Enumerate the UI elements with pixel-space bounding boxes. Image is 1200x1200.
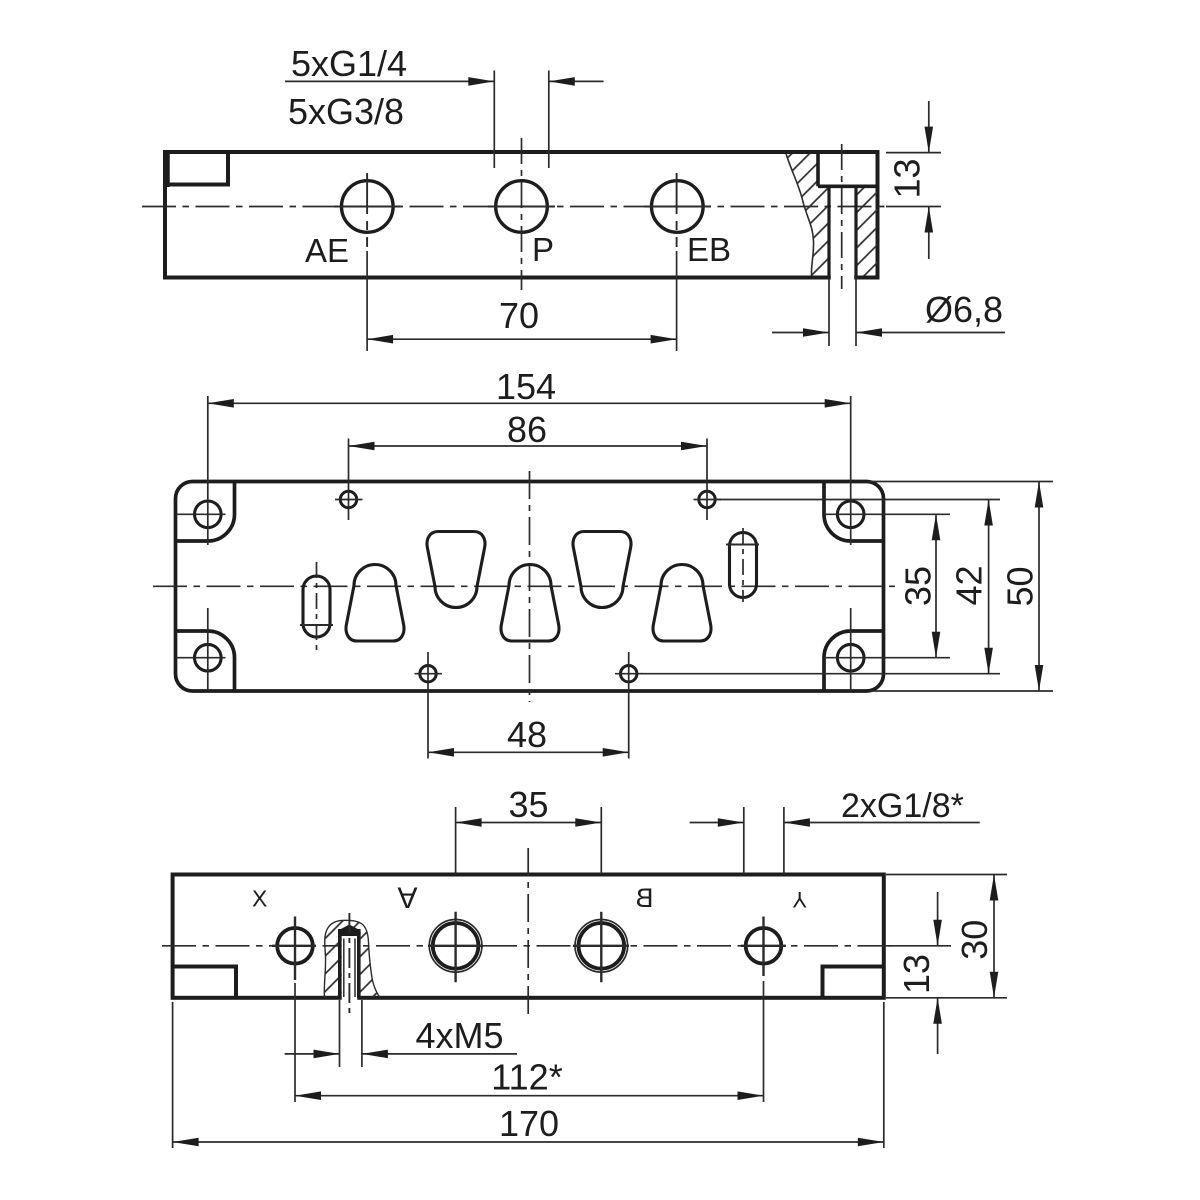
svg-text:EB: EB bbox=[687, 231, 731, 268]
dim 86 line bbox=[349, 445, 708, 447]
hatching right of mounting hole section bbox=[856, 186, 878, 275]
dim 154 line bbox=[208, 402, 851, 404]
dim 35 (view3) extension lines bbox=[455, 807, 457, 874]
svg-text:5xG3/8: 5xG3/8 bbox=[288, 91, 404, 132]
dim 50 line bbox=[1038, 482, 1040, 692]
dim 86 extension lines bbox=[348, 439, 350, 521]
view2 vertical centerline bbox=[529, 471, 531, 702]
mounting hole opening at plate bottom edge bbox=[831, 275, 854, 280]
mounting hole Ø6,8 left wall bbox=[827, 186, 830, 277]
dim 112* extension lines bbox=[294, 983, 296, 1102]
dim 13 line and arrows (view1) bbox=[928, 101, 930, 153]
svg-text:112*: 112* bbox=[491, 1057, 562, 1098]
M5 section hatch blob bbox=[324, 920, 380, 997]
dim 4xM5 extension lines bbox=[339, 1000, 341, 1067]
port AE vertical crosshair + extension to dim 70 bbox=[366, 173, 368, 247]
small hole bottom-right bbox=[621, 666, 637, 682]
svg-text:Y: Y bbox=[792, 887, 807, 912]
dim 2xG1/8 extension lines bbox=[743, 807, 745, 874]
dim 70 line bbox=[367, 338, 676, 340]
dim 13 (view3) extension line at centerline bbox=[888, 945, 951, 947]
valve port cutout down #2 bbox=[573, 532, 631, 608]
M5 hole centerline bbox=[348, 913, 350, 1018]
valve port cutout up #2 bbox=[501, 565, 559, 642]
svg-text:5xG1/4: 5xG1/4 bbox=[291, 43, 407, 84]
port A hole (tapped) bbox=[429, 920, 482, 973]
dim 112* line bbox=[295, 1095, 764, 1097]
dim 35 line bbox=[935, 514, 937, 657]
corner pocket top-right bbox=[824, 482, 884, 542]
corner pocket bottom-left bbox=[176, 631, 235, 691]
svg-text:35: 35 bbox=[508, 784, 548, 825]
corner screw hole bottom-left bbox=[195, 644, 222, 671]
dim 13 (view3) line and arrows bbox=[937, 892, 939, 946]
hatching left of mounting hole section bbox=[786, 154, 829, 276]
small hole top-right bbox=[699, 491, 715, 507]
view1 plate outline bbox=[165, 152, 878, 278]
corner pocket top-left bbox=[176, 482, 235, 542]
corner screw hole top-left bbox=[195, 501, 222, 528]
svg-text:13: 13 bbox=[887, 158, 928, 198]
corner pocket bottom-right bbox=[824, 631, 884, 691]
dim 170 line bbox=[173, 1141, 884, 1143]
port EB hole bbox=[652, 181, 704, 233]
counterbore outline bbox=[818, 153, 878, 187]
svg-text:86: 86 bbox=[507, 409, 547, 450]
svg-text:30: 30 bbox=[954, 920, 995, 960]
dim G1/4 extension lines at P hole edges bbox=[493, 71, 495, 169]
view1 left cut edge (thick) bbox=[163, 151, 170, 188]
svg-text:50: 50 bbox=[1000, 566, 1041, 606]
svg-text:42: 42 bbox=[949, 565, 990, 605]
dim G1/4 right arrow bbox=[549, 80, 604, 82]
view1 top-left notch bbox=[165, 152, 228, 185]
dim 48 line bbox=[428, 751, 629, 753]
mounting hole centerline bbox=[841, 144, 843, 289]
view3 bottom-right notch bbox=[823, 967, 884, 998]
dim 42 line bbox=[988, 500, 990, 674]
dim 30 extension lines bbox=[886, 874, 1007, 876]
oblong slot left bbox=[303, 576, 330, 637]
port B hole (tapped) bbox=[575, 920, 628, 973]
view2 plate outline (rounded) bbox=[176, 482, 884, 692]
svg-text:X: X bbox=[252, 886, 267, 912]
corner screw hole bottom-right bbox=[837, 644, 864, 671]
dim 4xM5 arrows bbox=[285, 1053, 340, 1055]
dim 30 line bbox=[993, 875, 995, 998]
M5 thread minor lines bbox=[343, 939, 345, 998]
view3 plate outline bbox=[173, 875, 884, 998]
svg-text:154: 154 bbox=[496, 366, 556, 407]
dim Ø6,8 extension lines below hole bbox=[828, 277, 830, 346]
dim 2xG1/8 arrows bbox=[690, 822, 744, 824]
port Y hole bbox=[746, 928, 782, 964]
view3 horizontal centerline bbox=[162, 945, 894, 947]
view3 vertical centerline bbox=[527, 848, 529, 1018]
dim 35 (view3) line bbox=[456, 822, 602, 824]
svg-text:170: 170 bbox=[499, 1103, 559, 1144]
svg-text:70: 70 bbox=[499, 295, 539, 336]
svg-text:35: 35 bbox=[898, 566, 939, 606]
dim 170 extension lines bbox=[172, 1002, 174, 1148]
M5 tapped hole void bbox=[342, 936, 358, 1000]
section break line (freehand) bbox=[786, 154, 814, 277]
svg-text:48: 48 bbox=[507, 714, 547, 755]
svg-text:2xG1/8*: 2xG1/8* bbox=[841, 787, 964, 825]
mounting hole Ø6,8 right wall bbox=[854, 186, 857, 277]
dim 42 extension lines bbox=[716, 499, 1000, 501]
port AE hole bbox=[342, 181, 394, 233]
view3 bottom-left notch bbox=[173, 967, 236, 998]
view1 horizontal centerline bbox=[142, 206, 886, 208]
corner screw hole top-right bbox=[837, 501, 864, 528]
M5 tapped hole walls bbox=[338, 931, 342, 998]
valve port cutout down #1 bbox=[427, 532, 485, 608]
dim 154 extension lines bbox=[207, 396, 209, 545]
small hole top-left bbox=[340, 491, 356, 507]
valve port cutout up #3 bbox=[653, 565, 711, 642]
svg-text:4xM5: 4xM5 bbox=[416, 1015, 504, 1056]
oblong slot right bbox=[730, 533, 757, 598]
svg-text:AE: AE bbox=[305, 232, 349, 269]
M5 drill cap bbox=[338, 929, 361, 936]
svg-text:A: A bbox=[397, 881, 417, 914]
port P vertical dash-dot centerline bbox=[521, 138, 523, 290]
port P hole bbox=[496, 181, 548, 233]
dim 13 extension lines (view1 right) bbox=[886, 152, 941, 154]
svg-text:13: 13 bbox=[896, 954, 937, 994]
dim Ø6,8 arrows bbox=[772, 332, 829, 334]
port X hole bbox=[277, 928, 313, 964]
valve port cutout up #1 bbox=[346, 565, 404, 642]
small hole bottom-left bbox=[420, 666, 436, 682]
svg-text:Ø6,8: Ø6,8 bbox=[925, 289, 1003, 330]
view2 horizontal centerline bbox=[153, 585, 895, 587]
svg-text:P: P bbox=[532, 231, 554, 268]
dim G1/4 leader line with arrow bbox=[285, 80, 494, 82]
dim 50 extension lines bbox=[869, 481, 1053, 483]
svg-text:B: B bbox=[635, 883, 653, 913]
port EB vertical crosshair + extension to dim 70 bbox=[676, 173, 678, 247]
